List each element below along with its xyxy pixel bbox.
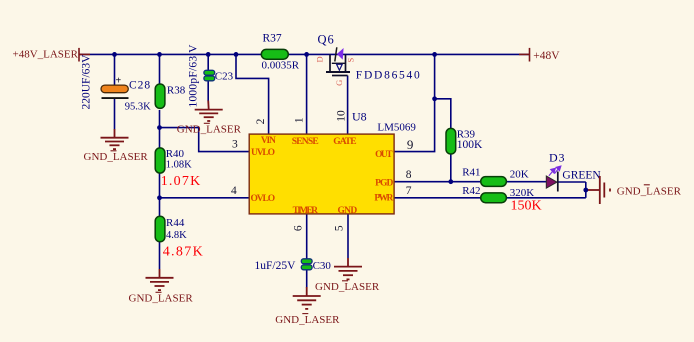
capacitor C28 (101, 76, 129, 99)
svg-text:GND_LASER: GND_LASER (617, 186, 682, 198)
svg-text:UVLO: UVLO (251, 148, 275, 158)
svg-text:GATE: GATE (333, 137, 356, 147)
svg-text:10: 10 (335, 110, 347, 122)
wire R38 to R40 (159, 110, 161, 149)
svg-text:100K: 100K (457, 139, 483, 151)
svg-text:SENSE: SENSE (292, 137, 319, 147)
wire C30 to ground (306, 270, 308, 288)
svg-text:Q6: Q6 (318, 32, 335, 46)
wire R38 drop (159, 54, 161, 84)
svg-text:TIMER: TIMER (293, 206, 319, 216)
svg-text:1.08K: 1.08K (166, 160, 192, 171)
svg-text:1: 1 (294, 117, 306, 123)
node rail-R38 (157, 52, 162, 57)
power port +48V_LASER (79, 48, 90, 62)
svg-text:GND_LASER: GND_LASER (315, 281, 380, 293)
svg-text:4.87K: 4.87K (163, 245, 203, 260)
svg-text:OVLO: OVLO (251, 194, 276, 204)
svg-text:C28: C28 (129, 80, 151, 92)
svg-text:D: D (315, 56, 325, 62)
wire C23 drop (207, 54, 209, 71)
node rail-OUT (432, 52, 437, 57)
svg-text:PGD: PGD (375, 178, 393, 188)
resistor R39 (446, 128, 456, 154)
node rail-SENSE (304, 52, 309, 57)
svg-text:320K: 320K (510, 187, 535, 199)
wire OUT to rail (394, 54, 435, 151)
wire R39 branch (435, 99, 451, 129)
svg-text:GREEN: GREEN (562, 170, 601, 182)
transistor Q6 FDD86540 (315, 47, 356, 86)
svg-text:C30: C30 (313, 260, 332, 272)
svg-text:GND_LASER: GND_LASER (177, 124, 242, 136)
svg-text:GND: GND (338, 206, 358, 216)
svg-text:6: 6 (293, 225, 305, 231)
wire PWR to junction (394, 197, 586, 199)
svg-text:+: + (116, 76, 122, 87)
wire TIMER to C30 (306, 214, 308, 260)
resistor R42 (481, 193, 507, 203)
wire C23 to ground (207, 81, 209, 102)
wire gate to pin10 (347, 76, 349, 135)
svg-text:D3: D3 (549, 151, 565, 165)
svg-text:4.8K: 4.8K (166, 230, 187, 241)
svg-text:OUT: OUT (375, 150, 393, 160)
wire R40 to R44 (159, 173, 161, 217)
resistor R40 (155, 148, 165, 173)
ground at LED (rotated) (588, 176, 610, 204)
resistor R38 (155, 84, 165, 108)
svg-text:VIN: VIN (261, 136, 276, 146)
svg-text:FDD86540: FDD86540 (356, 69, 420, 81)
ground at C28 (101, 129, 129, 149)
wire C28 drop (114, 54, 116, 85)
svg-text:2: 2 (255, 118, 267, 124)
svg-text:150K: 150K (511, 199, 542, 214)
resistor R44 (155, 216, 165, 242)
svg-text:R40: R40 (166, 148, 185, 160)
power port +48V (519, 48, 530, 62)
wire +48V rail (79, 53, 529, 55)
svg-text:LM5069: LM5069 (377, 121, 416, 133)
diode D3 LED (546, 166, 561, 191)
svg-text:7: 7 (406, 185, 412, 197)
pin names (251, 136, 394, 216)
node R39 tap (432, 96, 437, 101)
svg-text:R38: R38 (167, 85, 186, 97)
svg-text:8: 8 (406, 169, 412, 181)
svg-text:S: S (345, 58, 355, 63)
ground at C30 (293, 287, 321, 309)
wire GND pin5 (347, 214, 349, 258)
svg-text:R37: R37 (263, 33, 282, 45)
svg-text:+48V: +48V (533, 50, 560, 62)
svg-text:GND_LASER: GND_LASER (275, 314, 340, 326)
svg-text:20K: 20K (510, 169, 529, 181)
svg-text:+48V_LASER: +48V_LASER (13, 49, 79, 61)
wire R39 to PGD (450, 154, 452, 182)
svg-text:U8: U8 (352, 109, 367, 123)
svg-text:4: 4 (231, 185, 237, 197)
resistor R37 (261, 49, 288, 59)
svg-text:3: 3 (232, 139, 238, 151)
node OVLO divider (157, 195, 162, 200)
wire LED cathode (558, 181, 586, 183)
ground at pin 5 (334, 258, 362, 279)
capacitor C30 (301, 259, 312, 270)
ground at R44 (146, 269, 174, 290)
svg-text:R44: R44 (166, 217, 185, 229)
svg-text:PWR: PWR (374, 194, 393, 204)
wire PGD to LED (394, 181, 546, 183)
svg-text:220UF/63V: 220UF/63V (81, 54, 93, 110)
svg-text:95.3K: 95.3K (125, 102, 151, 113)
node rail-C23 (206, 52, 211, 57)
node rail-C28 (112, 52, 117, 57)
wire OVLO net (160, 197, 250, 199)
svg-text:R41: R41 (462, 166, 480, 178)
svg-text:GND_LASER: GND_LASER (84, 151, 149, 163)
svg-text:5: 5 (334, 225, 346, 231)
node LED-R42 (583, 188, 588, 193)
svg-text:R42: R42 (462, 185, 480, 197)
node rail-VIN (234, 52, 239, 57)
wire LED junction vertical (585, 182, 587, 198)
ground at C23 (195, 101, 223, 122)
svg-text:G: G (334, 80, 344, 86)
wire UVLO net (160, 128, 250, 152)
node UVLO divider (157, 125, 162, 130)
svg-text:1uF/25V: 1uF/25V (255, 260, 297, 272)
resistor R41 (481, 177, 507, 187)
wire C28 to ground (114, 99, 116, 130)
svg-text:0.0035R: 0.0035R (262, 59, 300, 71)
pin numbers (231, 110, 413, 231)
svg-text:1000pF/63 V: 1000pF/63 V (188, 44, 200, 108)
wire VIN branch (236, 54, 269, 134)
wire SENSE drop (306, 54, 308, 134)
capacitor C23 (204, 70, 215, 81)
svg-text:1.07K: 1.07K (161, 174, 201, 189)
svg-text:9: 9 (407, 137, 414, 152)
svg-text:GND_LASER: GND_LASER (129, 293, 194, 305)
IC U8 LM5069 body (249, 134, 394, 214)
node R39-PGD (448, 179, 453, 184)
svg-text:C23: C23 (215, 71, 234, 83)
wire R44 to ground (159, 242, 161, 269)
